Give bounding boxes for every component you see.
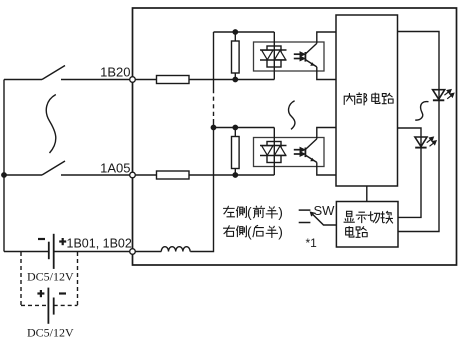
- module outline box: [133, 8, 457, 265]
- switch S1 (input contact 1B20): [4, 66, 130, 80]
- wire: Q1 collector to internal circuit: [317, 32, 336, 43]
- battery BT2 DC5/12V (reversed): [48, 288, 53, 324]
- svg-text:): ): [278, 204, 283, 220]
- svg-text:(: (: [247, 204, 252, 220]
- terminal 1B20: [130, 77, 136, 83]
- wire: COM terminal to inductor: [135, 251, 161, 253]
- BT2 minus sign: [59, 292, 66, 294]
- wire: U1 to display circuit: [366, 186, 368, 202]
- wire: Q1 emitter to internal circuit: [317, 67, 336, 80]
- label U2 line2: 电路: [346, 226, 367, 237]
- optocoupler PC2 package: [254, 138, 325, 167]
- display switch circuit block U2: [336, 202, 398, 248]
- terminal 1B01/1B02: [130, 249, 136, 255]
- row2 top rail: [214, 127, 275, 129]
- svg-text:*1: *1: [306, 236, 318, 250]
- label right-rear: 右侧(后半): [223, 225, 278, 238]
- PC1 LED D2 (up): [275, 50, 286, 59]
- wire: common vertical solid to row2: [213, 119, 215, 128]
- PC2 light arrows: [294, 148, 304, 156]
- wire: Q2 emitter to internal circuit: [317, 162, 336, 175]
- svg-text:DC5/12V: DC5/12V: [27, 270, 74, 284]
- svg-text:1B20: 1B20: [100, 65, 130, 80]
- BT1 plus sign: [59, 238, 66, 245]
- wire: 1B20 terminal to series resistor: [135, 79, 156, 81]
- PC2 phototransistor Q2: [305, 139, 316, 163]
- break squiggle middle: [289, 101, 295, 130]
- wire: R2 to LED branch: [189, 174, 274, 176]
- PC2 LED D3 (down): [262, 146, 273, 155]
- PC1 LED D1 (down): [262, 50, 273, 59]
- PC2 LED pair connections: [260, 128, 287, 176]
- label left-front: 左侧(前半): [223, 206, 278, 219]
- wire: bottom supply to COM: [4, 251, 130, 253]
- node: R3 bottom: [232, 77, 238, 83]
- svg-text:(: (: [247, 223, 252, 239]
- resistor R1 (series, 1B20): [157, 76, 190, 84]
- LED1: [433, 90, 445, 101]
- switch S2 (input contact 1A05): [4, 161, 130, 175]
- wire: U1 to LED1 anode: [398, 32, 440, 101]
- LED2 emission arrows: [427, 137, 436, 146]
- label U2 line1: 显示切换: [344, 211, 393, 223]
- wire: U1 to LED2 anode: [398, 128, 422, 148]
- PC1 LED pair connections: [260, 32, 287, 80]
- PC2 LED inner box: [267, 142, 281, 163]
- PC1 LED inner box: [267, 46, 281, 67]
- PC2 LED D4 (up): [275, 146, 286, 155]
- label U1: 内部电路: [344, 92, 393, 105]
- node: junction on left vertical at 1A05: [1, 172, 7, 178]
- row1 top rail: [214, 31, 275, 33]
- BT1 minus sign: [38, 238, 45, 240]
- node: R4 bottom: [232, 172, 238, 178]
- svg-text:DC5/12V: DC5/12V: [27, 326, 74, 340]
- wire: common vertical solid upper: [213, 32, 215, 89]
- inductor L1: [161, 247, 190, 252]
- node: common joins row2 rail: [211, 125, 217, 131]
- node: R3 top: [232, 29, 238, 35]
- svg-text:): ): [278, 223, 283, 239]
- LED2: [415, 137, 427, 148]
- svg-text:1B01, 1B02: 1B01, 1B02: [67, 237, 132, 251]
- resistor R2 (series, 1A05): [157, 171, 190, 179]
- node: R4 top: [232, 125, 238, 131]
- dashed alternative polarity path: [21, 252, 78, 305]
- resistor R3 (parallel, row1): [232, 32, 240, 80]
- wire: 1A05 terminal to series resistor: [135, 174, 156, 176]
- optocoupler PC1 package: [254, 42, 325, 71]
- LED1 emission arrows: [444, 90, 453, 99]
- wire: common vertical dashed (omitted channels): [213, 89, 215, 119]
- wire: LED1 cathode to U2: [398, 100, 439, 231]
- wire: R1 to LED branch: [189, 79, 274, 81]
- PC1 light arrows: [294, 53, 304, 61]
- break squiggle right: [415, 102, 428, 121]
- svg-text:SW: SW: [314, 203, 336, 218]
- PC1 phototransistor Q1: [305, 43, 316, 67]
- internal circuit block U1: [336, 15, 398, 186]
- break squiggle left: [46, 95, 56, 154]
- wire: Q2 collector to internal circuit: [317, 128, 336, 139]
- battery BT1 DC5/12V: [49, 234, 54, 269]
- wire: LED2 cathode to U2: [398, 148, 421, 218]
- BT2 plus sign: [37, 290, 44, 297]
- svg-text:1A05: 1A05: [100, 161, 130, 176]
- wire: left supply vertical: [3, 80, 5, 252]
- resistor R4 (parallel, row2): [232, 128, 240, 176]
- wire: inductor to common vertical: [190, 128, 213, 252]
- terminal 1A05: [130, 172, 136, 178]
- switch SW: [299, 210, 337, 225]
